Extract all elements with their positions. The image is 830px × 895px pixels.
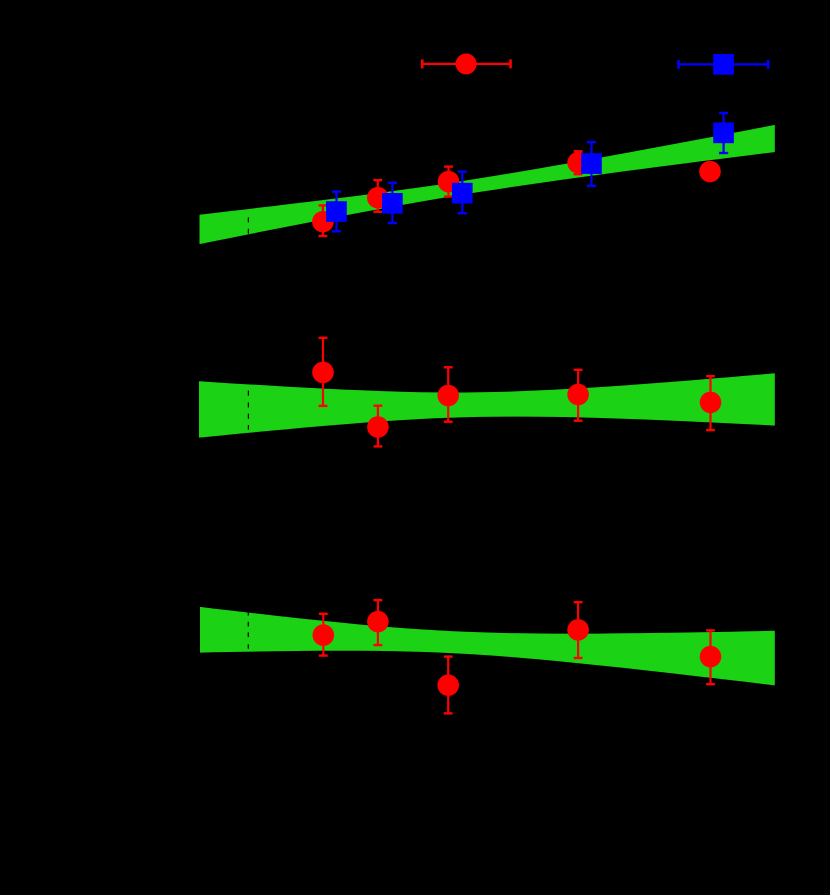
middle red point 1 error bar [319,338,328,406]
bottom panel dashed line [247,612,249,649]
bottom red point 5 marker [700,646,722,668]
bottom red point 4 error bar [574,602,583,658]
bottom red point 1 error bar [319,614,328,656]
bottom red point 3 marker [437,674,459,696]
middle red point 2 marker [367,416,389,438]
top red point 5 marker [699,161,721,183]
top red point 1 marker [312,211,334,233]
top blue point 1 error bar [332,192,341,232]
middle red point 5 error bar [706,376,715,430]
top red point 4 error bar [574,151,583,174]
top red point 3 error bar [444,167,453,197]
middle red point 2 error bar [374,406,383,447]
top red point 2 marker [367,187,389,209]
legend red entry [422,59,510,68]
bottom red point 2 error bar [374,600,383,645]
top blue point 5 error bar [719,113,728,153]
top blue point 2 error bar [388,183,397,223]
top red point 3 marker [438,171,460,193]
top blue point 3 error bar [458,172,467,214]
top blue point 3 marker [452,183,473,204]
bottom red point 1 marker [313,624,335,646]
middle panel fit band [199,373,775,437]
top blue point 2 marker [382,193,403,214]
middle red point 4 error bar [574,370,583,421]
bottom red point 3 error bar [444,657,453,714]
bottom panel fit band [200,607,775,686]
middle panel dashed line [247,391,249,430]
bottom red point 4 marker [567,619,589,641]
top red point 2 error bar [373,180,382,212]
middle red point 4 marker [567,384,589,406]
top blue point 5 marker [713,123,734,144]
bottom red point 5 error bar [706,630,715,684]
top blue point 4 error bar [587,142,596,186]
middle red point 3 marker [437,385,459,407]
top panel dashed line [247,217,249,233]
legend blue entry [679,60,769,69]
middle red point 3 error bar [444,367,453,421]
bottom red point 2 marker [367,611,389,633]
middle red point 1 marker [312,362,334,384]
top blue point 1 marker [326,201,347,222]
top blue point 4 marker [581,153,602,174]
top red point 4 marker [567,152,589,174]
top red point 1 error bar [319,205,328,236]
middle red point 5 marker [700,392,722,414]
top panel fit band [200,125,775,244]
